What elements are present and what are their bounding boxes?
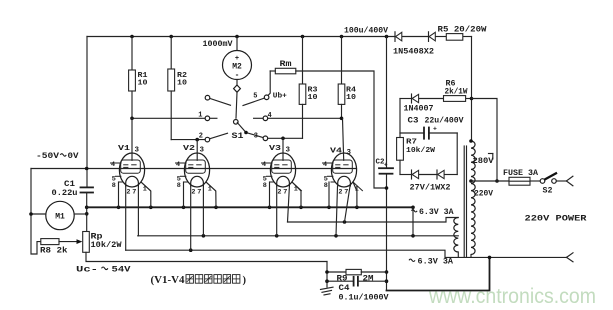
wire filter loop bbox=[387, 257, 490, 290]
svg-text:+: + bbox=[433, 126, 437, 133]
svg-text:V4: V4 bbox=[330, 148, 343, 156]
svg-text:R8: R8 bbox=[40, 247, 51, 256]
transformer primary winding 280V/220V bbox=[471, 141, 475, 255]
svg-text:100u/400V: 100u/400V bbox=[344, 27, 388, 36]
capacitor C1 bbox=[52, 180, 94, 198]
svg-text:10: 10 bbox=[346, 94, 357, 102]
wire contact4 line to R4 bbox=[268, 117, 342, 119]
label Uc- ~ 54V bbox=[76, 266, 131, 275]
svg-text:3: 3 bbox=[286, 147, 291, 155]
wire right drop from R5 to transformer bbox=[471, 37, 473, 142]
svg-text:280V: 280V bbox=[473, 157, 494, 166]
svg-text:3: 3 bbox=[254, 133, 258, 141]
meter M2 bbox=[223, 37, 252, 81]
wire bias feed bbox=[400, 98, 412, 100]
svg-text:FUSE 3A: FUSE 3A bbox=[503, 169, 538, 178]
wire cathode bus A bbox=[87, 206, 413, 208]
tube V3 bbox=[261, 145, 302, 197]
S1 contact 1 bbox=[198, 112, 217, 121]
svg-text:6.3V 3A: 6.3V 3A bbox=[419, 208, 454, 217]
resistor R2 bbox=[168, 37, 188, 140]
svg-text:3: 3 bbox=[135, 147, 140, 155]
svg-text:0V: 0V bbox=[68, 152, 79, 161]
label -50V~0V bbox=[36, 152, 79, 161]
mains terminal chevron bbox=[556, 176, 573, 186]
caption (V1-V4 are tubes under test) bbox=[151, 275, 247, 286]
svg-text:R7: R7 bbox=[406, 139, 417, 147]
resistor R5 bbox=[438, 26, 487, 41]
wire contact2 line bbox=[171, 139, 205, 141]
resistor R7 bbox=[397, 133, 436, 175]
wire V1 anode lead bbox=[131, 118, 133, 160]
svg-text:220V POWER: 220V POWER bbox=[525, 215, 587, 224]
svg-text:www.cntronics.com: www.cntronics.com bbox=[428, 284, 596, 308]
svg-text:10: 10 bbox=[308, 94, 319, 102]
S1 pivot bbox=[234, 120, 239, 125]
wire V4 anode lead bbox=[343, 118, 344, 160]
wire contact3 line to R3 bbox=[268, 137, 303, 139]
transformer core bbox=[463, 146, 465, 257]
transformer secondary 6.3V winding bbox=[454, 218, 459, 253]
ground bbox=[321, 281, 334, 295]
wire -50V grid bus bbox=[31, 168, 357, 170]
svg-text:10: 10 bbox=[138, 80, 149, 88]
wire V3 anode lead bbox=[282, 138, 284, 160]
svg-text:0.1u/1000V: 0.1u/1000V bbox=[339, 294, 389, 303]
wire heater bus B bbox=[288, 218, 459, 223]
svg-text:1N5408X2: 1N5408X2 bbox=[393, 48, 434, 57]
resistor R4 bbox=[338, 37, 356, 119]
wire secondary bottom bbox=[457, 252, 459, 257]
wire C1 column bbox=[86, 193, 88, 232]
capacitor C3 bbox=[408, 117, 464, 139]
svg-text:2k: 2k bbox=[57, 247, 68, 256]
node bus A junctions bbox=[117, 206, 415, 210]
wire zener row bbox=[400, 174, 412, 176]
wire R8 wiper arrow bbox=[59, 239, 82, 244]
svg-text:2k/1W: 2k/1W bbox=[445, 88, 468, 97]
svg-text:3: 3 bbox=[200, 147, 205, 155]
svg-text:22u/400V: 22u/400V bbox=[425, 117, 464, 126]
svg-text:M1: M1 bbox=[55, 213, 65, 222]
svg-text:S2: S2 bbox=[543, 187, 553, 196]
resistor R3 bbox=[299, 37, 318, 139]
svg-text:Ub+: Ub+ bbox=[273, 93, 288, 101]
label ~6.3V 3A lower bbox=[409, 258, 453, 267]
svg-text:220V: 220V bbox=[474, 190, 493, 199]
svg-text:6.3V 3A: 6.3V 3A bbox=[418, 258, 454, 267]
diode 1N4007 bbox=[404, 94, 434, 114]
svg-text:1N4007: 1N4007 bbox=[404, 105, 434, 114]
meter M1 bbox=[29, 201, 86, 229]
wire R6 junction to fuse line bbox=[472, 99, 499, 183]
wire Uc rail bbox=[86, 252, 327, 261]
switch S2 bbox=[530, 173, 557, 196]
S1 feed diamond bbox=[234, 80, 241, 119]
svg-text:-50V: -50V bbox=[36, 152, 59, 161]
wire V4 pin leads down bbox=[329, 182, 357, 236]
label ~6.3V 3A upper bbox=[412, 208, 454, 217]
S1 contact 4 bbox=[254, 112, 272, 121]
svg-text:2M: 2M bbox=[363, 275, 374, 284]
resistor R8 bbox=[40, 239, 68, 256]
wire left rail bbox=[31, 169, 41, 255]
tube V1 bbox=[110, 145, 151, 197]
wire V2 pin leads down bbox=[184, 182, 217, 250]
S1 wiper bbox=[237, 123, 263, 138]
svg-text:Rm: Rm bbox=[280, 60, 292, 69]
tube V2 bbox=[175, 145, 216, 197]
node top rail junctions bbox=[130, 35, 388, 39]
svg-text:C4: C4 bbox=[339, 284, 350, 293]
S1 contact 3 bbox=[254, 133, 268, 141]
svg-text:0.22u: 0.22u bbox=[52, 189, 78, 198]
svg-text:3: 3 bbox=[347, 149, 352, 157]
svg-text:10k/2W: 10k/2W bbox=[91, 241, 122, 250]
wire bias node bbox=[399, 99, 401, 134]
capacitor C4 bbox=[327, 277, 389, 303]
zener diode Z1 bbox=[412, 170, 419, 179]
svg-text:V1: V1 bbox=[118, 145, 131, 153]
resistor R1 bbox=[129, 37, 148, 119]
wire top B+ rail bbox=[87, 36, 395, 38]
wire V2 anode lead bbox=[196, 140, 198, 161]
svg-text:1000mV: 1000mV bbox=[203, 40, 233, 49]
zener diode Z2 bbox=[437, 170, 444, 179]
fuse FUSE 3A bbox=[503, 169, 538, 185]
wire Ub+ to contact 5 bbox=[268, 71, 275, 95]
svg-text:54V: 54V bbox=[112, 266, 131, 275]
diode 1N5408 D-a bbox=[395, 32, 402, 42]
svg-text:-: - bbox=[235, 71, 240, 80]
wire left border drop bbox=[86, 37, 88, 188]
svg-text:27V/1WX2: 27V/1WX2 bbox=[410, 184, 451, 193]
svg-text:R5 20/20W: R5 20/20W bbox=[438, 26, 487, 35]
wire heater bus D bbox=[126, 250, 567, 257]
svg-text:): ) bbox=[243, 275, 247, 286]
node bus B/D junctions bbox=[189, 220, 346, 252]
S1 contact 5 bbox=[243, 93, 269, 106]
svg-text:(V1-V4: (V1-V4 bbox=[151, 275, 186, 286]
tube V4 bbox=[322, 148, 363, 197]
wire Uc to ground node bbox=[326, 262, 328, 282]
wire center-tap bus C bbox=[138, 235, 459, 237]
svg-text:5: 5 bbox=[253, 93, 257, 101]
svg-text:V2: V2 bbox=[183, 145, 196, 153]
mains return chevron bbox=[567, 253, 574, 262]
svg-text:Uc-: Uc- bbox=[76, 266, 98, 275]
wire fuse feed bbox=[471, 180, 509, 182]
S1 contact top-left bbox=[205, 95, 230, 105]
svg-text:S1: S1 bbox=[232, 132, 244, 141]
capacitor C2 bbox=[376, 159, 394, 174]
svg-text:V3: V3 bbox=[269, 145, 282, 153]
wire Rm right to common bbox=[296, 71, 387, 188]
wire A-to-C tie bbox=[412, 207, 414, 236]
svg-text:C1: C1 bbox=[64, 180, 75, 189]
wire contact1 line bbox=[132, 117, 205, 119]
svg-text:10k/2W: 10k/2W bbox=[406, 147, 436, 155]
resistor R6 bbox=[444, 80, 468, 102]
wire V1 pin leads down bbox=[119, 182, 151, 250]
svg-text:R9: R9 bbox=[337, 275, 348, 284]
node bus C junctions bbox=[202, 234, 415, 238]
potentiometer Rp bbox=[83, 232, 122, 253]
wire C2 column bbox=[386, 37, 388, 168]
wire V3 pin leads down bbox=[270, 182, 302, 236]
resistor R9 bbox=[327, 269, 387, 283]
S1 contact 2 bbox=[199, 132, 228, 142]
svg-text:10: 10 bbox=[177, 80, 188, 88]
diode 1N5408 D-b bbox=[429, 32, 436, 42]
svg-text:C3: C3 bbox=[408, 117, 419, 126]
resistor Rm bbox=[275, 60, 296, 74]
